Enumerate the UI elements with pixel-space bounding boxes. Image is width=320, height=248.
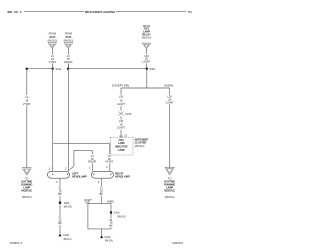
wire high-beam drop upper segment — [109, 143, 111, 154]
wire V2 upper segment from S312 triangle — [52, 48, 54, 54]
wire left ground segment to splice — [59, 196, 61, 202]
component label FOG LAMP INDICATOR LAMP (inside box) — [115, 139, 127, 152]
ground G104 (symbol) — [100, 235, 103, 238]
left headlamp connector (stadium) — [48, 171, 70, 178]
svg-text:MODULE: MODULE — [22, 190, 33, 193]
wire V1 upper segment down from square terminal — [26, 70, 28, 95]
svg-text:L39: L39 — [119, 96, 124, 99]
svg-text:HEADLAMP: HEADLAMP — [72, 175, 87, 179]
ground G103 (symbol) — [59, 234, 62, 237]
connector FROM FOG LAMP RELAY (triangle symbol) — [142, 43, 151, 49]
wire right ground upper segment — [100, 178, 102, 187]
svg-text:BK: BK — [58, 222, 62, 225]
pin arrow right (inside left headlamp) — [66, 174, 68, 176]
splice S112 (square) — [59, 202, 61, 204]
wire low-beam bus with bend to left headlamp pin 2 — [69, 151, 92, 171]
instrument cluster (dashed box) — [111, 137, 134, 155]
wire indicator branch bar (horizontal) — [121, 87, 170, 89]
wire V5 segment below inline connector — [120, 116, 122, 119]
svg-text:HEADLAMP: HEADLAMP — [115, 175, 130, 179]
inline connector C276 (symbol) — [118, 112, 123, 116]
splice S312 junction dot — [52, 68, 54, 70]
connector TO DAYTIME RUNNING LAMP MODULE right (label text) — [164, 178, 175, 199]
pin arrow right (inside right headlamp) — [110, 174, 112, 176]
svg-text:G103: G103 — [63, 234, 70, 237]
svg-text:VT/WT: VT/WT — [105, 161, 113, 164]
wire w/DRL segment below splice — [110, 214, 112, 219]
wire right ground segment to split — [100, 196, 102, 204]
svg-text:S312: S312 — [56, 68, 62, 71]
svg-text:LAMP: LAMP — [118, 149, 125, 152]
connector FROM S310 (label text) — [64, 33, 74, 43]
svg-text:VT/WT: VT/WT — [49, 61, 57, 64]
wire label L3 18 RD/OR (low-beam drop) — [88, 155, 96, 164]
wire label Z1 18 BK (w/DRL path) — [109, 219, 113, 228]
pin arrow left (inside left headlamp) — [52, 174, 54, 176]
wire label L39 18 LG/WT (on V6) — [166, 96, 174, 105]
component label LEFT HEADLAMP — [72, 171, 87, 178]
variant label EXCEPT DRL (bottom) — [84, 199, 92, 205]
connector TO DAYTIME RUNNING LAMP MODULE right (triangle symbol) — [165, 167, 174, 175]
wire label L39 18 LG/WT (on V5 upper) — [117, 96, 125, 107]
wire split bar (horizontal) — [88, 202, 111, 204]
wire V1 lower segment to DRL triangle — [26, 106, 28, 168]
splice S301 junction dot — [146, 68, 148, 70]
svg-text:S112: S112 — [64, 202, 70, 205]
wire left ground upper segment — [59, 178, 61, 187]
svg-text:8W-50 FRONT LIGHTING: 8W-50 FRONT LIGHTING — [85, 10, 116, 14]
svg-text:(8W-50-3): (8W-50-3) — [64, 39, 74, 42]
connector FROM S312 (label text) — [48, 33, 58, 43]
wire V5 segment to inline connector — [120, 106, 122, 111]
wire label Z1 18 BK (left ground lower) — [58, 217, 62, 226]
header rule right segment — [116, 11, 186, 13]
svg-text:C08W504: C08W504 — [172, 241, 184, 245]
connector FROM FOG LAMP RELAY (label text) — [142, 25, 152, 40]
wire V6 lower segment to right DRL triangle — [169, 104, 171, 167]
svg-text:BK: BK — [109, 225, 113, 228]
svg-text:S110: S110 — [114, 212, 120, 215]
wire label L4 18 VT/WT (on V1) — [23, 96, 31, 106]
wire label Z1 18 BK (right ground) — [100, 188, 104, 197]
connector TO DAYTIME RUNNING LAMP MODULE left (triangle symbol) — [22, 168, 31, 176]
wire label L4 18 VT/WT (on V2) — [49, 55, 57, 64]
svg-text:(8W-50-2): (8W-50-2) — [142, 36, 152, 39]
junction dot on V3 — [67, 68, 69, 70]
wire V6 upper segment — [169, 88, 171, 95]
svg-text:BK: BK — [58, 193, 62, 196]
svg-text:(8W-15-6): (8W-15-6) — [117, 215, 125, 218]
connector TO DAYTIME RUNNING LAMP MODULE left (label text) — [21, 178, 32, 199]
component label INSTRUMENT CLUSTER (8W-40-2) — [135, 138, 149, 148]
svg-text:RD/OR: RD/OR — [88, 161, 96, 164]
svg-text:RD/OR: RD/OR — [64, 61, 72, 64]
svg-text:EXCEPT DRL: EXCEPT DRL — [112, 84, 130, 87]
svg-text:BK: BK — [100, 193, 104, 196]
wire horizontal bus left segment — [28, 68, 53, 70]
wire label L3 18 RD/OR (on V3) — [64, 55, 72, 64]
splice S110 (square) — [110, 211, 112, 213]
header rule left segment — [24, 11, 84, 13]
wire V5 segment to instrument cluster — [120, 130, 122, 137]
wire w/DRL path upper segment — [110, 203, 112, 211]
wire V3 upper segment from S310 triangle — [67, 48, 69, 54]
wire V2 segment to splice S312 — [52, 64, 54, 69]
svg-text:G104: G104 — [104, 236, 111, 239]
connector FROM S312 (triangle symbol) — [48, 43, 57, 49]
svg-text:(8W-15-6): (8W-15-6) — [64, 206, 72, 209]
svg-text:C276: C276 — [125, 113, 132, 116]
wire high-beam drop lower segment to right headlamp pin 2 — [109, 163, 111, 171]
wire except-DRL path (left bracket) — [88, 203, 111, 229]
wire horizontal bus right segment — [68, 68, 147, 70]
svg-text:VT/WT: VT/WT — [23, 103, 31, 106]
svg-text:LG/WT: LG/WT — [117, 127, 125, 130]
svg-text:(8W-50-6): (8W-50-6) — [22, 196, 32, 199]
pin arrow left (inside right headlamp) — [93, 174, 95, 176]
svg-text:8W - 50 - 4: 8W - 50 - 4 — [8, 10, 22, 14]
svg-text:(8W-50-6): (8W-50-6) — [165, 196, 175, 199]
wire label L39 18 LG/WT (on V5 lower) — [117, 120, 125, 130]
svg-text:S301: S301 — [150, 68, 156, 71]
svg-text:LG/WT: LG/WT — [166, 102, 174, 105]
wire label L39 18 LG/WT (on V4) — [143, 55, 151, 64]
wire V4 upper segment from fog relay triangle — [146, 49, 148, 54]
wire low-beam drop upper segment — [91, 151, 93, 155]
svg-text:J038W-4: J038W-4 — [10, 241, 23, 245]
wire V5 upper segment — [120, 88, 122, 95]
right headlamp connector (stadium) — [91, 171, 113, 178]
wire ground drop to G104 — [101, 229, 103, 236]
wire label L4 18 VT/WT (high-beam drop) — [105, 155, 113, 164]
svg-text:(8W-15-2): (8W-15-2) — [63, 238, 71, 241]
component label RIGHT HEADLAMP — [115, 171, 130, 178]
svg-text:(8W-40-2): (8W-40-2) — [135, 145, 145, 148]
svg-text:TJ: TJ — [188, 10, 192, 14]
wire V3 segment to junction — [67, 64, 69, 69]
wire V3 lower segment to left headlamp pin 2 — [67, 64, 69, 172]
svg-text:LG/WT: LG/WT — [143, 60, 151, 63]
svg-text:W/DRL: W/DRL — [164, 84, 174, 87]
wire V4 segment to splice S301 — [146, 63, 148, 69]
connector square terminal at left end of bus — [26, 68, 28, 70]
wire V2 lower segment to left headlamp pin 1 — [52, 64, 54, 172]
wire high-beam bus (horizontal) — [53, 142, 110, 144]
wire left ground segment below splice — [59, 204, 61, 216]
wire label Z1 18 BK (left ground) — [58, 188, 62, 197]
wire left ground segment to G103 — [59, 225, 61, 234]
svg-text:MODULE: MODULE — [164, 190, 175, 193]
wire low-beam drop lower segment to right headlamp pin 1 — [91, 163, 93, 171]
connector FROM S310 (triangle symbol) — [64, 43, 73, 49]
wire V4 lower segment below S301 — [146, 69, 148, 88]
pin tick at cluster — [119, 135, 122, 137]
svg-text:LG/WT: LG/WT — [117, 103, 125, 106]
svg-text:(8W-15-4): (8W-15-4) — [105, 240, 113, 243]
svg-text:(8W-50-3): (8W-50-3) — [48, 39, 58, 42]
wire w/DRL segment to bottom bar — [110, 227, 112, 229]
